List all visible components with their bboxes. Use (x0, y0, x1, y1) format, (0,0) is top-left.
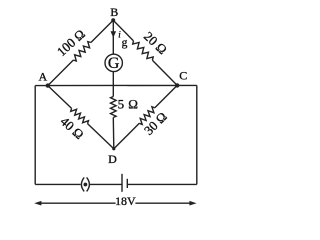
arrow current ig (111, 31, 117, 38)
wire left vertical side (34, 86, 36, 185)
svg-text:Ω: Ω (128, 97, 138, 112)
svg-text:18V: 18V (115, 194, 136, 208)
resistor R4 30ohm D-C zigzag (139, 107, 155, 125)
resistor R1 100ohm A-B zigzag (73, 42, 91, 61)
svg-text:100 Ω: 100 Ω (54, 26, 88, 59)
resistor R2 20ohm B-C zigzag (133, 41, 154, 60)
wire R4 30ohm D-C lead 1 (114, 123, 140, 149)
galvanometer G circle (105, 54, 122, 71)
wire R4 30ohm D-C lead 2 (155, 85, 177, 107)
wire right vertical side (196, 85, 198, 184)
dimension arrow left (34, 201, 41, 206)
wire bottom middle segment (90, 183, 122, 185)
dimension arrow right (189, 201, 196, 206)
svg-text:D: D (108, 152, 117, 166)
dimension line left segment (40, 202, 116, 204)
svg-text:A: A (38, 69, 47, 83)
wire R3 40ohm A-D lead 1 (48, 86, 72, 109)
svg-text:B: B (110, 5, 118, 19)
resistor R5 5ohm zigzag (111, 97, 117, 118)
wire R2 20ohm B-C lead 2 (152, 60, 177, 85)
wire R2 20ohm B-C lead 1 (113, 20, 133, 41)
node C junction dot (175, 83, 179, 87)
battery long plate (121, 174, 123, 192)
wire B to galvanometer (112, 20, 114, 54)
node D junction dot (112, 147, 115, 150)
svg-text:G: G (108, 55, 120, 72)
wire R1 100ohm A-B lead 1 (48, 60, 74, 86)
wire resistor 5ohm to D (112, 118, 115, 149)
node A junction dot (46, 83, 50, 87)
wire R3 40ohm A-D lead 2 (88, 124, 114, 149)
battery short plate (126, 179, 128, 188)
wire bottom left segment (35, 183, 80, 185)
wire top horizontal through A and C (35, 84, 197, 86)
resistor R3 40ohm A-D zigzag (71, 108, 89, 123)
svg-text:C: C (179, 69, 187, 83)
wire R1 100ohm A-B lead 2 (91, 20, 113, 42)
node B junction dot (111, 18, 115, 22)
meter left paren arc (81, 177, 84, 191)
svg-text:5: 5 (118, 97, 125, 112)
svg-text:g: g (122, 37, 128, 49)
wire galvanometer to resistor 5ohm (112, 72, 114, 97)
dimension line right segment (135, 202, 191, 204)
svg-text:30 Ω: 30 Ω (141, 109, 170, 138)
wire bottom right segment (127, 183, 196, 185)
meter center dot (84, 183, 88, 187)
meter right paren arc (87, 177, 90, 191)
wheatstone bridge circuit schematic (0, 0, 237, 215)
